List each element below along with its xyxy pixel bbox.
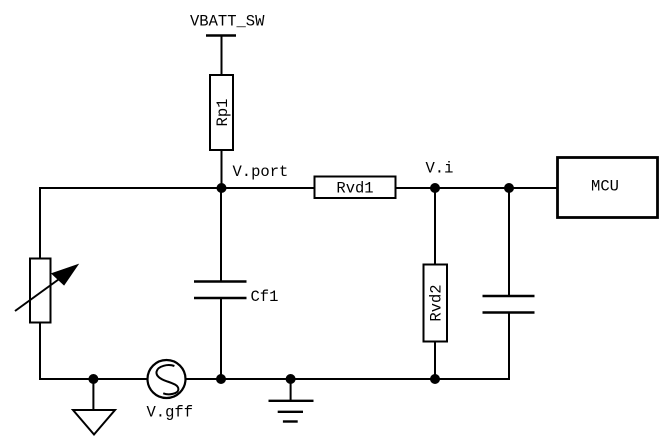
junction dot bottom left (triangle ground tap) xyxy=(88,374,98,384)
svg-text:MCU: MCU xyxy=(591,178,619,196)
junction dot earth ground tap xyxy=(286,374,296,384)
resistor Rvd1 xyxy=(315,177,396,199)
MCU U1 xyxy=(558,158,658,218)
wire left rail lower xyxy=(39,323,41,381)
variable resistor RV1 xyxy=(15,259,79,323)
earth ground (middle) xyxy=(269,379,314,422)
wire left rail upper xyxy=(39,187,41,259)
svg-text:Cf1: Cf1 xyxy=(251,288,279,306)
ground triangle (left) xyxy=(73,379,115,435)
node V.i junction dot xyxy=(430,183,440,193)
wire bottom rail left of source xyxy=(39,378,148,380)
svg-text:VBATT_SW: VBATT_SW xyxy=(190,13,265,31)
resistor Rvd2 xyxy=(424,188,448,379)
source V.gff xyxy=(147,360,194,422)
resistor Rp1 xyxy=(210,75,233,150)
wire Rp1 to node V.port xyxy=(221,150,223,188)
capacitor C2 right xyxy=(483,188,535,380)
svg-text:V.i: V.i xyxy=(426,160,454,178)
junction dot Rvd2 bottom xyxy=(430,374,440,384)
capacitor Cf1 xyxy=(194,188,278,379)
power symbol VBATT_SW bar xyxy=(206,34,236,36)
svg-text:V.gff: V.gff xyxy=(147,404,194,422)
svg-text:Rvd2: Rvd2 xyxy=(428,284,446,321)
wire power bar to Rp1 xyxy=(221,36,223,75)
node V.port junction dot xyxy=(217,183,227,193)
junction dot Cf1 bottom xyxy=(216,374,226,384)
wire bottom rail right of source xyxy=(186,378,511,380)
wire main horizontal left (corner to Rvd1) xyxy=(40,187,314,189)
node junction dot right xyxy=(504,183,514,193)
svg-text:Rvd1: Rvd1 xyxy=(336,180,373,198)
wire Rvd1 to MCU xyxy=(397,187,558,189)
svg-text:V.port: V.port xyxy=(233,163,289,181)
svg-text:Rp1: Rp1 xyxy=(214,99,232,127)
